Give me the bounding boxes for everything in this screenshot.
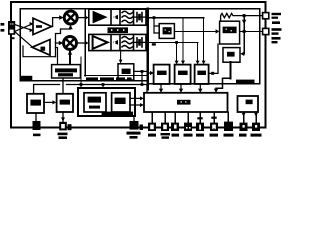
pin GND1 xyxy=(33,121,41,130)
regulator output wires xyxy=(244,112,256,123)
synthesizer inner box xyxy=(149,9,260,84)
mod box E2 xyxy=(112,93,130,112)
arrow reg out 2 xyxy=(254,113,258,117)
osc label xyxy=(163,27,172,34)
pin CP xyxy=(263,28,269,34)
amp symbol chain I xyxy=(93,11,108,24)
pin CLK out xyxy=(59,122,67,131)
pin P6 xyxy=(210,123,218,131)
amp symbol chain Q xyxy=(93,36,108,49)
node charge pump xyxy=(243,30,246,33)
arrow LO into mixer I xyxy=(68,25,72,29)
arrow into logic left 1 xyxy=(140,96,144,100)
pin P9 xyxy=(252,123,260,131)
mod box E1 xyxy=(84,93,106,112)
wire LO vertical xyxy=(84,9,86,76)
wire divider B3 feeds xyxy=(198,18,204,62)
phase detector box U2 xyxy=(220,21,240,44)
pin CP labels xyxy=(272,28,282,43)
divider outputs to logic xyxy=(161,84,200,89)
divider box D2 xyxy=(57,94,73,112)
node RSSI out xyxy=(141,70,144,73)
ground bar 2 xyxy=(130,136,138,139)
label P9 xyxy=(251,134,262,137)
demod bus labels xyxy=(86,77,132,80)
node on IF I bus xyxy=(153,16,156,19)
arrow reg out 1 xyxy=(242,113,246,117)
divider box B1 xyxy=(154,65,170,84)
wire TX amp bottom xyxy=(56,48,58,65)
arrow into mixer I xyxy=(59,15,63,20)
modulator cluster box xyxy=(78,88,135,116)
regulator box G1 xyxy=(238,96,259,112)
arrow into IF chain 1 xyxy=(85,15,89,19)
arrow B2 in 1 xyxy=(175,61,179,65)
pin P2 xyxy=(161,123,169,131)
wire RSSI out xyxy=(134,71,147,84)
label P2 line2 xyxy=(162,136,170,138)
wire input cross 2 xyxy=(15,24,33,32)
arrow div out 3 xyxy=(198,89,202,93)
filter squiggle chain Q xyxy=(122,37,132,49)
arrow into B1 xyxy=(149,72,154,74)
wire mixer Q to IF chain xyxy=(77,42,86,44)
logic output wires xyxy=(152,112,228,123)
wire mixer I to IF chain xyxy=(77,17,85,19)
label P3 xyxy=(172,134,180,137)
node cluster feed 2 xyxy=(102,83,105,86)
pin small left xyxy=(68,124,72,130)
wire VCO out down xyxy=(230,62,232,78)
label P8 xyxy=(239,134,247,137)
pin P3 xyxy=(171,123,179,131)
pin RFIN+ xyxy=(9,22,15,28)
label CLK line2 xyxy=(59,136,68,139)
IF chain Q box xyxy=(89,34,146,50)
IF chain I box xyxy=(89,9,146,25)
arrow LO up into mixer Q xyxy=(68,50,72,54)
wire IF I bus xyxy=(146,17,204,19)
pin XTAL xyxy=(263,13,269,19)
divider box B3 xyxy=(195,65,209,84)
logic label xyxy=(177,100,191,105)
bottom labels xyxy=(33,132,262,139)
pin label RF IN+ xyxy=(1,23,5,26)
mixer Q M2 xyxy=(64,37,77,50)
label CLK line1 xyxy=(58,133,68,136)
loop filter resistor R1 xyxy=(221,13,263,21)
arrow div out 2 xyxy=(179,89,183,93)
label P2 line1 xyxy=(161,133,171,135)
node at divider feed xyxy=(175,41,178,44)
wire divider B2 feeds xyxy=(177,18,183,62)
wire gain box to modulator xyxy=(80,57,82,88)
xtal osc box D1 xyxy=(27,94,44,113)
wire to osc box xyxy=(154,18,159,34)
ceramic filter chain I xyxy=(134,13,145,22)
osc box xyxy=(159,24,174,39)
label P7 xyxy=(224,134,234,137)
arrow LNA input 2 xyxy=(30,28,34,32)
bus tick 1 xyxy=(197,117,202,119)
label P4 xyxy=(184,134,193,137)
pin stub mark xyxy=(10,37,15,39)
bus tick 2 xyxy=(211,117,216,119)
wire C1 to divider D2 xyxy=(62,78,64,94)
op-amp LNA A1 xyxy=(33,18,52,34)
agc arrow chain Q xyxy=(113,40,118,45)
node loop filter xyxy=(243,14,246,17)
divider box B2 xyxy=(175,65,191,84)
pin P7 xyxy=(224,122,233,131)
gain control box C1 xyxy=(52,65,81,78)
mixer I M1 xyxy=(64,11,77,24)
wire to TX amp xyxy=(15,32,33,48)
ceramic filter chain Q xyxy=(134,38,145,47)
IC outer border xyxy=(11,2,266,128)
arrow B3 in 2 xyxy=(202,61,206,65)
arrow into logic left 2 xyxy=(140,103,144,107)
node B3 out xyxy=(211,72,214,75)
ground bar 1 xyxy=(127,132,141,135)
wire phase det out xyxy=(240,30,263,32)
bus to blocks xyxy=(34,85,147,94)
phase det label xyxy=(223,27,237,34)
RSSI box F1 xyxy=(118,64,134,80)
filter squiggle chain I xyxy=(122,11,132,23)
wire E2 out xyxy=(130,98,140,105)
IF chain I label xyxy=(108,27,129,33)
arrow B3 in 1 xyxy=(196,61,200,65)
wire chain Q to RSSI xyxy=(120,51,122,60)
synthesizer label bar xyxy=(236,80,255,84)
wire TX loop xyxy=(23,46,56,57)
wire LO to mixer Q xyxy=(69,50,71,64)
arrow B2 in 2 xyxy=(181,61,185,65)
wire input cross 1 xyxy=(15,25,33,31)
wire osc to phase det xyxy=(174,30,215,32)
pin P4 xyxy=(184,123,192,131)
modulator label bar xyxy=(102,112,134,117)
arrow into mixer Q xyxy=(59,41,63,46)
VCO label xyxy=(227,52,235,57)
node on IF Q bus xyxy=(152,43,156,45)
wire LO staircase to mixer I xyxy=(56,26,71,57)
wire cluster stub xyxy=(102,85,104,89)
wire D1 to D2 xyxy=(44,101,52,103)
pin P5 xyxy=(196,123,204,131)
op-amp TX A2 xyxy=(32,40,50,56)
wire D1 to pin xyxy=(35,113,37,121)
pin XTAL labels xyxy=(272,13,282,24)
wire VCO control xyxy=(243,16,245,54)
wire IF Q bus xyxy=(146,41,198,43)
pin P1 xyxy=(148,123,156,131)
wire demod bus xyxy=(85,75,147,77)
arrow div out 1 xyxy=(159,89,163,93)
receiver label bar xyxy=(21,76,33,80)
wire LNA output split xyxy=(52,18,60,43)
arrow into phase det xyxy=(216,29,220,33)
arrow LNA input 1 xyxy=(30,22,34,26)
label P1 xyxy=(148,134,156,137)
junction on border xyxy=(140,125,144,131)
arrow into VCO xyxy=(240,52,244,56)
wire modulator to pin xyxy=(133,117,135,121)
pin GND2 xyxy=(130,121,139,130)
pin P8 xyxy=(240,123,248,131)
label P5 xyxy=(196,134,204,137)
pin RFIN- xyxy=(9,29,15,34)
agc arrow chain I xyxy=(113,15,118,20)
arrow down on VCO control xyxy=(242,20,246,25)
arrow into logic box xyxy=(214,89,218,93)
label GND1 xyxy=(33,134,41,137)
node cluster feed 1 xyxy=(80,83,83,86)
node RSSI bus xyxy=(141,83,144,86)
label P6 xyxy=(210,134,219,137)
wire B3 out to phase det xyxy=(209,44,218,73)
wire VCO branch left xyxy=(216,78,231,89)
wire D2 to pin xyxy=(62,112,64,122)
pin label RF IN- xyxy=(1,29,5,32)
control logic box U4 xyxy=(144,93,228,112)
arrow into IF chain 2 xyxy=(85,41,89,45)
gain control labels xyxy=(55,68,77,76)
inner box shared edge xyxy=(146,9,149,89)
receiver inner box xyxy=(20,9,147,81)
VCO box U3 xyxy=(223,48,240,63)
